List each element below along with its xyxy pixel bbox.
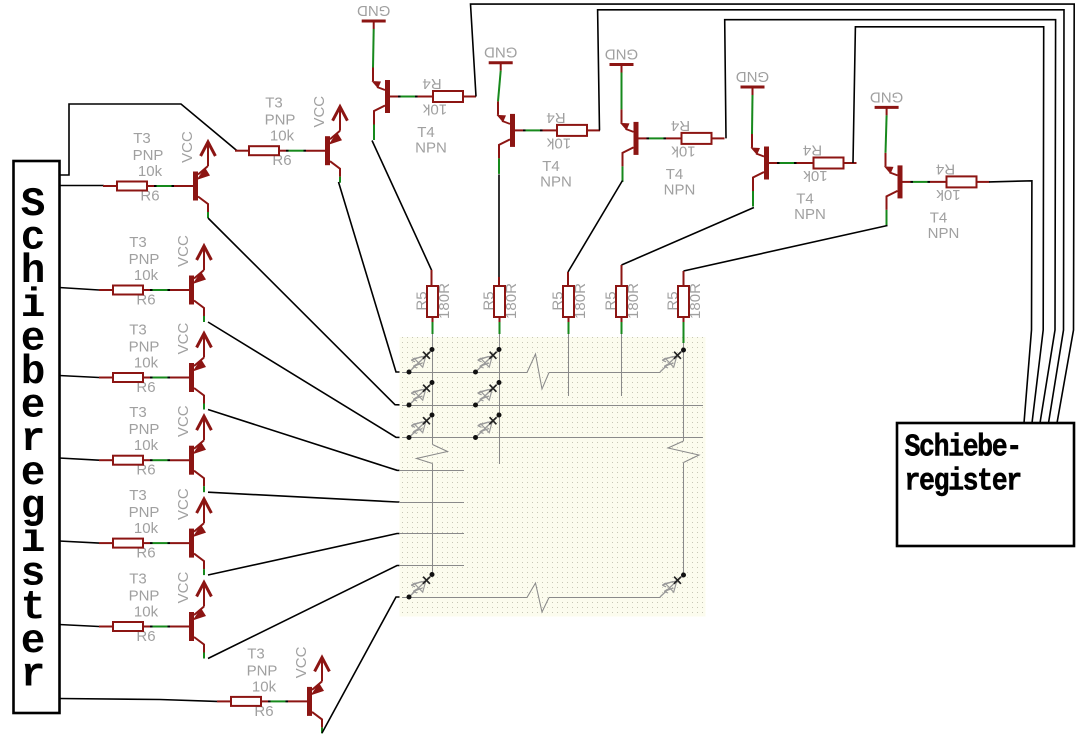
svg-text:R4: R4	[803, 142, 822, 159]
junction col5 row8	[681, 573, 686, 578]
transistor T3 PNP (stage 3)	[189, 358, 206, 410]
svg-text:NPN: NPN	[794, 206, 826, 223]
svg-text:T3: T3	[247, 645, 265, 662]
wire T4-1 collector to R5-1	[372, 141, 432, 287]
wire below R5 (column 1)	[432, 317, 434, 334]
svg-text:VCC: VCC	[293, 646, 310, 678]
wire base net (stage 8)	[261, 700, 307, 702]
wire resistor stub (stage 5)	[99, 542, 113, 544]
resistor R6 (stage 5)	[113, 539, 143, 548]
svg-text:10k: 10k	[936, 186, 961, 203]
LED D1 (row1 col1)	[409, 350, 433, 373]
transistor T4 NPN (stage 2)	[497, 114, 516, 174]
transistor T3 PNP (stage 2)	[189, 270, 206, 322]
svg-text:10k: 10k	[422, 101, 447, 118]
wire T4-2 collector to R5-2	[498, 174, 500, 277]
wire emitter to ground (stage 5)	[886, 107, 887, 166]
wire emitter to ground (stage 1)	[372, 21, 375, 81]
matrix row 6 stub	[400, 533, 464, 535]
shift register box (left)	[14, 161, 60, 713]
transistor T3 PNP (stage 6)	[189, 607, 206, 659]
ground symbol (T4 stage 5)	[875, 106, 899, 109]
transistor T4 NPN (stage 5)	[884, 165, 903, 225]
svg-text:10k: 10k	[134, 604, 159, 621]
svg-text:NPN: NPN	[415, 140, 447, 157]
junction row1 left	[407, 370, 412, 375]
label Schieberegister (vertical)	[21, 182, 46, 698]
resistor R6 (stage 8)	[231, 697, 261, 706]
svg-text:PNP: PNP	[247, 662, 278, 679]
wire resistor stub right (stage 1)	[463, 96, 476, 98]
wire base net (stage 4)	[769, 162, 814, 164]
svg-text:T3: T3	[129, 234, 147, 251]
svg-text:GND: GND	[736, 68, 770, 85]
svg-text:10k: 10k	[252, 678, 277, 695]
wire box to stage 2	[59, 288, 99, 291]
wire resistor stub (stage 8)	[217, 700, 231, 702]
ground symbol (T4 stage 1)	[362, 20, 386, 23]
LED D6 (row3 col2)	[476, 415, 500, 438]
svg-text:GND: GND	[605, 46, 639, 63]
label Schiebe-register	[905, 430, 1021, 500]
wire base net (stage 7)	[279, 150, 325, 152]
svg-text:PNP: PNP	[129, 251, 160, 268]
wire box to stage 4	[59, 458, 99, 460]
svg-text:Schiebe-: Schiebe-	[905, 430, 1021, 466]
wire T4-4 collector to R5-4	[622, 208, 754, 266]
wire T4-4 collector red stub	[621, 265, 623, 286]
svg-text:register: register	[905, 464, 1021, 500]
svg-text:PNP: PNP	[129, 421, 160, 438]
resistor R5 (column 5)	[678, 286, 689, 317]
matrix column 5 wire (upper)	[683, 343, 685, 441]
svg-text:PNP: PNP	[129, 504, 160, 521]
svg-text:R4: R4	[546, 109, 565, 126]
wire resistor stub right (stage 3)	[712, 137, 725, 139]
svg-text:10k: 10k	[803, 167, 828, 184]
svg-text:10k: 10k	[134, 437, 159, 454]
LED D3 (row3 col1)	[409, 415, 433, 438]
wire T4-4 base to right shift register	[853, 27, 1044, 423]
svg-text:R4: R4	[936, 160, 955, 177]
svg-text:T3: T3	[129, 322, 147, 339]
wire emitter to ground (stage 2)	[498, 63, 501, 115]
matrix row 1 wire (right)	[549, 372, 661, 374]
svg-text:T4: T4	[542, 158, 560, 175]
wire stage 5 collector to matrix row 6	[208, 534, 403, 576]
wire resistor stub right (stage 5)	[977, 181, 990, 183]
svg-text:10k: 10k	[134, 267, 159, 284]
VCC symbol (stage 4)	[197, 416, 212, 440]
wire base net (stage 1)	[147, 185, 193, 187]
matrix row 8 wire (right)	[549, 597, 661, 599]
transistor T3 PNP (stage 4)	[189, 440, 206, 492]
junction row2 col2	[473, 403, 478, 408]
wire emitter to ground (stage 4)	[751, 87, 754, 148]
svg-text:NPN: NPN	[664, 181, 696, 198]
matrix row 8 break zigzag	[527, 583, 549, 612]
matrix column 4 wire	[621, 334, 623, 396]
transistor T4 NPN (stage 3)	[620, 122, 639, 182]
resistor R5 (column 4)	[616, 286, 627, 317]
wire T4-3 collector red stub	[567, 272, 569, 286]
svg-text:T4: T4	[930, 209, 948, 226]
wire base net (stage 1)	[390, 96, 433, 98]
matrix row 5 stub	[400, 502, 464, 504]
resistor R5 (column 1)	[427, 286, 438, 317]
junction col1 row8	[430, 572, 435, 577]
wire T4-5 collector red stub	[683, 271, 685, 286]
matrix column 5 break zigzag	[668, 441, 699, 463]
svg-text:T3: T3	[265, 95, 283, 112]
resistor R4 (stage 2)	[557, 125, 587, 136]
wire stage 3 collector to matrix row 4	[208, 410, 403, 471]
svg-text:R4: R4	[671, 117, 690, 134]
matrix row 8 wire (left)	[402, 597, 527, 599]
wire box to stage 7	[59, 104, 237, 175]
matrix row 4 stub	[400, 470, 464, 472]
wire below R5 (column 4)	[621, 317, 623, 334]
svg-text:NPN: NPN	[928, 225, 960, 242]
wire resistor stub (stage 3)	[99, 377, 113, 379]
matrix row 7 stub	[400, 565, 464, 567]
transistor T4 NPN (stage 1)	[372, 80, 391, 140]
wire resistor stub (stage 6)	[99, 626, 113, 628]
resistor R6 (stage 4)	[113, 456, 143, 465]
VCC symbol (stage 1)	[201, 142, 216, 166]
wire resistor stub (stage 7)	[235, 150, 249, 152]
svg-text:T3: T3	[129, 487, 147, 504]
transistor T3 PNP (stage 8)	[307, 681, 324, 733]
wire stage 1 collector to matrix row 2	[208, 218, 403, 405]
svg-text:r: r	[21, 652, 46, 698]
svg-text:R4: R4	[422, 75, 441, 92]
wire resistor stub (stage 2)	[99, 289, 113, 291]
svg-text:T3: T3	[129, 571, 147, 588]
wire stage 7 collector to matrix row 1	[339, 182, 404, 372]
wire stage 4 collector to matrix row 5	[208, 492, 403, 502]
wire box to stage 5	[59, 541, 99, 543]
svg-text:VCC: VCC	[311, 96, 328, 128]
resistor R6 (stage 2)	[113, 286, 143, 295]
wire T4-3 base to right shift register	[725, 20, 1056, 423]
VCC symbol (stage 2)	[197, 246, 212, 270]
matrix column 3 wire	[568, 334, 570, 396]
LED D5 (row2 col2)	[476, 383, 500, 406]
wire stage 6 collector to matrix row 7	[208, 566, 403, 659]
svg-text:T4: T4	[417, 124, 435, 141]
junction row8 left	[407, 595, 412, 600]
LED D2 (row2 col1)	[409, 383, 433, 406]
svg-text:PNP: PNP	[265, 112, 296, 129]
wire resistor stub (stage 4)	[99, 459, 113, 461]
transistor T3 PNP (stage 5)	[189, 523, 206, 575]
svg-text:GND: GND	[870, 88, 904, 105]
ground symbol (T4 stage 2)	[489, 61, 513, 64]
junction row3 col2	[473, 435, 478, 440]
svg-text:T4: T4	[666, 166, 684, 183]
VCC symbol (stage 8)	[315, 657, 330, 681]
resistor R4 (stage 5)	[947, 176, 977, 187]
VCC symbol (stage 5)	[197, 499, 212, 523]
wire T4-2 collector red stub	[498, 277, 500, 286]
wire base net (stage 6)	[143, 626, 189, 628]
wire T4-2 base to right shift register	[598, 10, 1064, 423]
svg-text:10k: 10k	[546, 134, 571, 151]
wire T4-1 collector red stub	[431, 270, 433, 286]
VCC symbol (stage 3)	[197, 334, 212, 358]
wire base net (stage 4)	[143, 459, 189, 461]
ground symbol (T4 stage 4)	[741, 86, 765, 89]
svg-text:PNP: PNP	[129, 588, 160, 605]
LED D7 (row1 col5)	[660, 350, 684, 373]
svg-text:GND: GND	[357, 2, 391, 19]
resistor R6 (stage 1)	[117, 182, 147, 191]
svg-text:VCC: VCC	[179, 131, 196, 163]
wire below R5 (column 2)	[499, 317, 501, 334]
wire resistor stub (stage 1)	[103, 185, 117, 187]
wire below R5 (column 5)	[683, 317, 685, 343]
wire resistor stub right (stage 4)	[844, 162, 857, 164]
wire base net (stage 2)	[143, 289, 189, 291]
resistor R4 (stage 4)	[814, 158, 844, 169]
resistor R6 (stage 3)	[113, 373, 143, 382]
svg-text:VCC: VCC	[175, 488, 192, 520]
wire base net (stage 3)	[639, 137, 682, 139]
svg-text:10k: 10k	[671, 142, 696, 159]
transistor T3 PNP (stage 1)	[193, 166, 210, 218]
wire below R5 (column 3)	[568, 317, 570, 334]
wire emitter to ground (stage 3)	[621, 65, 623, 123]
LED matrix background	[400, 337, 706, 617]
wire base net (stage 2)	[515, 129, 557, 131]
junction col1 row3	[430, 413, 435, 418]
wire T4-5 collector to R5-5	[684, 226, 888, 272]
matrix column 2 wire	[499, 334, 501, 464]
LED D8 (row8 col1)	[409, 575, 433, 598]
junction row1 col2	[473, 370, 478, 375]
svg-text:T3: T3	[133, 130, 151, 147]
matrix row 1 wire (left)	[402, 372, 527, 374]
VCC symbol (stage 7)	[333, 107, 348, 131]
svg-text:GND: GND	[484, 44, 518, 61]
VCC symbol (stage 6)	[197, 583, 212, 607]
svg-text:10k: 10k	[134, 355, 159, 372]
svg-text:VCC: VCC	[175, 405, 192, 437]
LED D9 (row8 col5)	[660, 575, 684, 598]
wire base net (stage 3)	[143, 377, 189, 379]
svg-text:VCC: VCC	[175, 322, 192, 354]
matrix column 1 wire (lower)	[432, 464, 434, 575]
wire box to stage 1	[59, 185, 103, 188]
matrix column 1 break zigzag	[417, 445, 448, 464]
junction col1 row2	[430, 380, 435, 385]
matrix row 3 wire	[402, 437, 703, 439]
junction row3 left	[407, 435, 412, 440]
svg-text:10k: 10k	[270, 128, 295, 145]
resistor R4 (stage 1)	[433, 91, 463, 102]
svg-text:PNP: PNP	[133, 147, 164, 164]
svg-text:PNP: PNP	[129, 339, 160, 356]
junction row2 left	[407, 403, 412, 408]
wire base net (stage 5)	[143, 542, 189, 544]
wire box to stage 3	[59, 376, 99, 378]
resistor R6 (stage 7)	[249, 146, 279, 155]
svg-text:NPN: NPN	[540, 173, 572, 190]
svg-text:10k: 10k	[138, 163, 163, 180]
transistor T3 PNP (stage 7)	[325, 131, 342, 183]
matrix row 2 wire	[402, 405, 703, 407]
resistor R5 (column 2)	[494, 286, 505, 317]
transistor T4 NPN (stage 4)	[751, 147, 770, 207]
wire stage 8 collector to matrix row 8	[322, 597, 403, 733]
svg-text:10k: 10k	[134, 520, 159, 537]
wire resistor stub right (stage 2)	[587, 129, 600, 131]
wire T4-5 base to right shift register	[989, 181, 1032, 423]
wire box to stage 8	[59, 699, 217, 702]
svg-text:T4: T4	[796, 191, 814, 208]
junction col2 row1	[497, 347, 502, 352]
svg-text:VCC: VCC	[175, 235, 192, 267]
svg-text:VCC: VCC	[175, 571, 192, 603]
wire base net (stage 5)	[903, 181, 947, 183]
resistor R5 (column 3)	[563, 286, 574, 317]
matrix column 5 wire (lower)	[683, 463, 685, 578]
matrix column 1 wire (upper)	[432, 334, 434, 445]
svg-text:T3: T3	[129, 404, 147, 421]
junction col2 row2	[497, 380, 502, 385]
wire box to stage 6	[59, 625, 99, 627]
wire T4-1 base to right shift register	[471, 4, 1075, 423]
junction col2 row3	[497, 413, 502, 418]
LED D4 (row1 col2)	[476, 350, 500, 373]
junction col1 row1	[430, 347, 435, 352]
resistor R6 (stage 6)	[113, 622, 143, 631]
ground symbol (T4 stage 3)	[610, 63, 634, 66]
wire T4-3 collector to R5-3	[568, 181, 623, 273]
junction col5 row1	[681, 348, 686, 353]
matrix row 1 break zigzag	[527, 354, 549, 389]
shift register box (right)	[897, 423, 1074, 546]
resistor R4 (stage 3)	[682, 133, 712, 144]
wire stage 2 collector to matrix row 3	[208, 322, 403, 438]
